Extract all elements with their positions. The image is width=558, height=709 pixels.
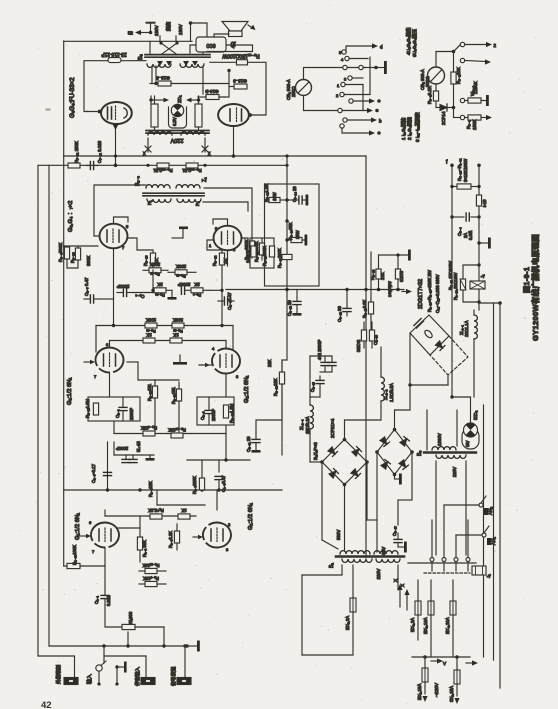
capacitor C5-4: [452, 213, 479, 221]
wire right long bus E: [493, 303, 495, 660]
capacitor C2-8 2009P: [205, 397, 213, 425]
bias T bar between tubes: [172, 227, 188, 239]
svg-text:3X₂,15A: 3X₂,15A: [449, 686, 454, 702]
interstage transformer secondary coils: [147, 199, 171, 202]
interstage transformer core: [143, 193, 204, 196]
wire grid line with resistor R5-16: [84, 61, 146, 112]
choke ZL2-4: [310, 405, 322, 462]
svg-text:R₇₋₁₁1.5K: R₇₋₁₁1.5K: [264, 184, 269, 202]
resistor R6-24 on feedback bus: [186, 163, 198, 168]
svg-text:ℓ-19: ℓ-19: [482, 199, 487, 207]
choke ZL1-1: [474, 310, 477, 397]
svg-text:C₂₋₄: C₂₋₄: [135, 294, 144, 299]
wire speaker enclosure loop: [207, 45, 253, 52]
plug monitor in: [141, 678, 155, 685]
svg-text:6.3V: 6.3V: [172, 117, 177, 126]
switch terminal 3: [344, 76, 363, 82]
arrow mains down right: [454, 698, 459, 704]
wire CB2 loop top: [436, 50, 455, 67]
svg-text:6U₃G₃G₄稳压: 6U₃G₃G₄稳压: [411, 29, 418, 57]
wire taps above output transformer: [150, 36, 203, 55]
wire left stage vertical: [63, 156, 65, 566]
power transformer core: [146, 131, 209, 134]
wire right long bus D: [483, 405, 485, 657]
svg-text:6ℓV: 6ℓV: [465, 440, 470, 447]
domino cap bars: [414, 319, 424, 329]
svg-text:23-116-11P: 23-116-11P: [101, 51, 127, 57]
svg-text:C₅₋₁₇: C₅₋₁₇: [392, 526, 397, 536]
wire tube G6 cathode down: [233, 126, 235, 156]
lamp arrows: [149, 98, 200, 103]
terminal arrow right of speaker: [248, 25, 256, 30]
svg-text:ℓZD₂: ℓZD₂: [473, 410, 478, 420]
node right bus F top: [479, 301, 502, 305]
input jack circle: [96, 661, 106, 686]
fuse BX5 2A: [350, 565, 356, 655]
svg-text:25W: 25W: [295, 230, 300, 239]
relay J1 coil: [470, 281, 485, 289]
wire AN risers: [432, 505, 468, 557]
switch terminal row meter top: [343, 65, 378, 69]
wire frame top horizontal: [64, 40, 192, 42]
grid arrow G1b: [193, 535, 203, 539]
svg-text:0.05\: 0.05\: [468, 230, 473, 240]
resistor R5-15: [237, 60, 248, 65]
bias T bar G2: [173, 355, 187, 365]
wire bridge2 leads: [377, 410, 412, 552]
svg-text:1250K: 1250K: [473, 81, 478, 94]
meter CB1: [296, 80, 312, 96]
fuse BX4 10A: [450, 580, 456, 657]
wire transformer secondary right lead: [203, 202, 248, 211]
domino diode: [435, 341, 445, 351]
svg-text:C₁₋₅0.47: C₁₋₅0.47: [221, 475, 226, 492]
X mark left lead: [143, 138, 151, 157]
wire filament drops: [152, 66, 231, 97]
wire B5 lower loop: [436, 461, 466, 555]
svg-text:R₂₋₂₂151: R₂₋₂₂151: [147, 383, 152, 401]
fuse BX6 15A: [454, 657, 460, 696]
resistor R1-5: [178, 514, 190, 519]
power transformer coils: [148, 132, 172, 135]
wire G1 grid rail: [157, 490, 217, 510]
node tube G6 cathode bus: [232, 154, 236, 158]
svg-text:130V: 130V: [178, 23, 183, 35]
input jack T bar: [117, 662, 127, 673]
capacitor C7-14 20: [287, 196, 306, 204]
svg-text:5L-15: 5L-15: [136, 441, 141, 452]
resistor R1-2 39K: [137, 528, 142, 562]
grid stopper resistors right R3-17: [249, 194, 254, 258]
lamp ZD2 socket: [462, 428, 479, 449]
capacitor C2-3 2000P: [119, 397, 127, 421]
wire G2 grid rail lower: [110, 340, 227, 342]
capacitor pair 2000P mid: [310, 356, 336, 405]
transformer B1 core: [336, 555, 404, 558]
svg-text:ZL₂₋₄: ZL₂₋₄: [299, 419, 304, 430]
svg-text:100K: 100K: [173, 318, 183, 323]
terminal f: [446, 160, 454, 168]
svg-text:BX₂,10A: BX₂,10A: [423, 617, 428, 634]
wire ZD2 top: [450, 395, 470, 423]
filament winding right rect: [195, 104, 202, 127]
small box resistors R3-16: [250, 238, 274, 268]
terminal circles B1 primary row: [430, 558, 470, 562]
switch terminal b: [343, 117, 382, 123]
svg-text:Z₁: Z₁: [202, 177, 208, 182]
svg-text:2DG1T7×32: 2DG1T7×32: [418, 279, 424, 309]
resistors 38Kx2: [361, 322, 374, 348]
wire G4 right lead: [241, 238, 248, 247]
resistor 160K: [251, 246, 256, 257]
wire R5-15 to plate cap riser: [248, 62, 267, 115]
capacitor C1-1 0.022: [101, 590, 109, 605]
svg-text:B₁: B₁: [329, 563, 335, 568]
ground C5-17: [398, 542, 407, 553]
ground C2-11: [252, 446, 261, 453]
node C5-4 ends: [450, 215, 480, 218]
ground C7-14: [306, 195, 309, 206]
svg-text:2K: 2K: [194, 282, 199, 287]
secondary tap arrows: [157, 61, 198, 66]
resistor R2-23 22K: [279, 360, 284, 395]
svg-text:伴音输入: 伴音输入: [134, 667, 141, 686]
svg-text:G₅G₆:FU-33×2: G₅G₆:FU-33×2: [69, 77, 76, 118]
tube G4: [209, 226, 242, 252]
svg-text:100K: 100K: [146, 318, 156, 323]
resistor R7-11: [265, 197, 288, 202]
wire transformer top left lead: [94, 185, 146, 236]
wire box to transformer: [190, 45, 196, 53]
svg-text:R₁+2.2K: R₁+2.2K: [148, 508, 164, 513]
resistor R2-4 15K: [143, 431, 155, 436]
svg-text:C₇₋₁₄ 20: C₇₋₁₄ 20: [292, 186, 297, 202]
wire G2a cathode down: [109, 373, 111, 398]
svg-text:160K: 160K: [246, 253, 251, 263]
svg-text:C₂₋₈: C₂₋₈: [200, 411, 205, 420]
resistor R1-11 10K upper: [139, 568, 166, 573]
wire bottom mains bus: [412, 655, 470, 659]
svg-text:22K: 22K: [267, 359, 272, 367]
svg-text:C₂₋₁₀: C₂₋₁₀: [373, 335, 378, 345]
svg-text:BX₃,2A: BX₃,2A: [410, 618, 415, 632]
svg-text:C₃₋₁₂ 39: C₃₋₁₂ 39: [337, 306, 342, 322]
svg-text:R₅₋₁₀35K: R₅₋₁₀35K: [288, 222, 293, 240]
svg-text:输入: 输入: [86, 674, 93, 684]
svg-text:600: 600: [206, 42, 215, 48]
svg-text:~220V: ~220V: [434, 682, 440, 697]
svg-text:BX₅,2A: BX₅,2A: [345, 616, 350, 630]
switch terminal on meter wire: [338, 108, 379, 113]
wire terminal stubs: [432, 562, 468, 572]
svg-text:1.5Ω/0.5A: 1.5Ω/0.5A: [389, 383, 394, 402]
resistor R5-10 35K 25W: [287, 237, 304, 242]
svg-text:R₆₋₂₅0.51: R₆₋₂₅0.51: [153, 168, 173, 173]
switch terminal 1: [337, 82, 363, 88]
svg-text:1K: 1K: [223, 257, 229, 264]
arrow to speaker top-left: [128, 30, 152, 36]
svg-text:外接喉剌: 外接喉剌: [55, 665, 62, 684]
wire right long bus F: [499, 303, 501, 688]
svg-text:R₁₋₁₈,10Ω10W: R₁₋₁₈,10Ω10W: [453, 273, 458, 300]
resistor 2K left: [154, 288, 172, 293]
resistor R6-25 on feedback bus: [157, 163, 169, 168]
svg-text:R₂₋₁₇6.8K: R₂₋₁₇6.8K: [362, 299, 367, 318]
speaker horn: [222, 22, 248, 37]
capacitor C2-12 20: [293, 297, 301, 309]
svg-text:X: X: [393, 579, 398, 582]
wire C2-12 drop: [296, 290, 298, 298]
svg-text:1360V: 1360V: [437, 433, 442, 446]
svg-text:G₁:1/2 6N₁: G₁:1/2 6N₁: [248, 503, 254, 530]
svg-text:R₂₋₉: R₂₋₉: [193, 293, 202, 298]
capacitor C5-17: [394, 533, 402, 547]
svg-text:R₅₋₁₅150Ω100W: R₅₋₁₅150Ω100W: [222, 53, 259, 59]
svg-text:3 I₅₁~I₇₂基陵校: 3 I₅₁~I₇₂基陵校: [414, 112, 421, 142]
wire G1 plate rail: [105, 510, 196, 528]
resistor R5-16: [108, 58, 121, 63]
resistor 0.675: [395, 255, 400, 290]
resistor R2-22: [152, 380, 157, 405]
margin scan mark: [46, 109, 51, 111]
tube G1b: [203, 522, 231, 552]
wire left feedback vertical A: [38, 166, 75, 678]
grid stopper resistor R3-18: [259, 238, 264, 260]
svg-text:信号发送: 信号发送: [170, 667, 177, 686]
svg-text:R₁₋₇220K: R₁₋₇220K: [192, 476, 197, 494]
domino transistor oval: [423, 329, 433, 339]
switch contact CB2 lower: [460, 58, 491, 64]
output transformer B3 secondary coils: [147, 64, 171, 67]
plug speaker ext: [64, 678, 78, 685]
wire bias rail G2: [127, 362, 212, 380]
pot W6-4 1250K: [460, 95, 489, 106]
svg-text:C₂₋₁₂ 20: C₂₋₁₂ 20: [287, 300, 292, 316]
arrow X second: [400, 584, 410, 610]
ground bridge2: [395, 474, 402, 485]
cathode arrow G5: [113, 125, 119, 131]
relay branch loop: [463, 263, 481, 303]
svg-text:130V: 130V: [154, 24, 159, 36]
bridge rectifier 2CP21x4: [375, 428, 414, 477]
svg-text:G13₋9: G13₋9: [233, 79, 247, 84]
plug signal send: [177, 678, 191, 685]
svg-text:2CP14: 2CP14: [441, 111, 446, 125]
screen resistors 200K row left: [143, 268, 168, 273]
ground right column: [477, 238, 491, 249]
cathode resistor R3-15 1K: [137, 247, 156, 270]
svg-text:2K: 2K: [157, 282, 162, 287]
dashed tap line: [424, 572, 470, 574]
svg-text:AN₂: AN₂: [488, 507, 493, 515]
svg-text:10W: 10W: [272, 192, 277, 201]
resistor R2-13c 1.8M: [223, 405, 228, 418]
svg-text:250Ω: 250Ω: [291, 86, 296, 97]
svg-text:R₇₋₃₁ 150K: R₇₋₃₁ 150K: [74, 141, 79, 163]
svg-text:1 I₁,G₁调流: 1 I₁,G₁调流: [400, 117, 407, 140]
resistor R5-8: [282, 254, 292, 259]
svg-text:1⁄9(ℓ⁄8)W: 1⁄9(ℓ⁄8)W: [387, 281, 392, 297]
potentiometer W1 680: [122, 624, 164, 629]
svg-text:C₁₄~C₁₅=0.033 630V: C₁₄~C₁₅=0.033 630V: [435, 274, 440, 313]
svg-text:52: 52: [128, 31, 134, 36]
node bottom bus: [102, 644, 186, 647]
terminal bar top: [147, 23, 155, 33]
svg-text:B₂Z₂P×3: B₂Z₂P×3: [313, 442, 318, 460]
switch bank terminal 5: [339, 46, 374, 55]
svg-text:B₅: B₅: [417, 451, 423, 456]
tube G1a: [89, 520, 119, 554]
svg-text:42: 42: [41, 700, 52, 709]
svg-text:R₁₋₃2.2K: R₁₋₃2.2K: [168, 531, 173, 548]
arrow mains down left: [422, 696, 427, 702]
svg-text:R₁₋₁₆=R₂₋₁₆=220K 2W: R₁₋₁₆=R₂₋₁₆=220K 2W: [427, 270, 432, 312]
wire G3 top pin: [114, 217, 129, 224]
resistor R1-4: [150, 514, 162, 519]
bridge rectifier B2Z2P x3: [320, 438, 369, 487]
svg-text:2CP21×4: 2CP21×4: [330, 418, 335, 438]
svg-text:4U₂G₂G₃输出: 4U₂G₂G₃输出: [405, 27, 412, 55]
tube G2b: [212, 346, 240, 379]
node box inner: [285, 198, 288, 241]
wire mid bus horizontal: [226, 289, 404, 291]
wire mid vertical bus C: [370, 252, 372, 300]
wire G1a cathode to W1: [104, 548, 105, 591]
svg-text:200K: 200K: [150, 262, 160, 267]
fuse BX1 15A: [422, 657, 428, 694]
svg-text:2000P: 2000P: [116, 446, 128, 451]
svg-text:B₃: B₃: [138, 54, 144, 60]
svg-text:G₂:1/2 6N₁: G₂:1/2 6N₁: [244, 376, 250, 403]
resistor R1-6 10K lower: [139, 581, 166, 586]
svg-text:R₃₋₉500K: R₃₋₉500K: [58, 243, 63, 262]
svg-text:15Ω/0.2A: 15Ω/0.2A: [305, 416, 310, 434]
wire G2b cathode down: [225, 374, 227, 398]
svg-text:ZL₂₋₂: ZL₂₋₂: [383, 389, 388, 400]
wire left feedback vertical B: [48, 165, 50, 646]
svg-text:R₂₋₃₀100K: R₂₋₃₀100K: [72, 545, 77, 565]
wire winding rect stubs: [155, 96, 199, 131]
speaker matching box 600 ohm: [196, 37, 226, 52]
wire B1 lower loop: [302, 565, 398, 655]
bias cap cluster C2-9: [104, 442, 155, 490]
svg-text:R₂₋₄15K: R₂₋₄15K: [141, 426, 157, 431]
tube G2a: [94, 342, 124, 379]
wire R2-18 top rail: [379, 254, 409, 256]
capacitor C2-11 20: [252, 433, 260, 446]
grid resistor R3-20 390K: [75, 246, 80, 264]
filament resistor left: [150, 76, 229, 87]
diode 2CP14: [436, 104, 455, 111]
meter CB2: [428, 67, 445, 84]
cathode network box right G2: [197, 397, 234, 425]
screen resistors 200K row right: [168, 270, 196, 275]
arrow on bus: [402, 289, 412, 294]
wire G2 plate rail upper: [96, 325, 233, 327]
svg-text:2000P: 2000P: [178, 282, 191, 287]
resistor R2-18 10K: [376, 255, 381, 290]
grid resistor R3-9 500K: [64, 246, 69, 264]
svg-text:G₃,G₄ ：₇×2: G₃,G₄ ：₇×2: [68, 201, 74, 232]
svg-text:P₁: P₁: [147, 200, 152, 205]
ground C2-12: [293, 309, 302, 316]
svg-text:2009P: 2009P: [211, 409, 216, 421]
wire mid coupling column: [64, 434, 282, 492]
wire CB2 bottom chain: [433, 84, 438, 108]
svg-text:R₃₋₁₃: R₃₋₁₃: [212, 255, 217, 266]
wire tube G5 cathode down: [115, 124, 117, 165]
wire bottom ground bus: [49, 645, 187, 647]
wire mid vertical bus A: [286, 156, 288, 360]
svg-text:X: X: [400, 584, 405, 587]
wire grid resistor top bus: [64, 245, 98, 247]
svg-text:1K: 1K: [146, 333, 151, 338]
grid arrow G2a: [84, 360, 95, 364]
svg-text:W₁680: W₁680: [128, 611, 133, 624]
center ground T: [168, 290, 177, 299]
fuse BX3 2A: [415, 580, 421, 640]
svg-text:R₁₋₆10K: R₁₋₆10K: [143, 576, 159, 581]
speaker arrow down: [231, 42, 236, 47]
svg-text:G₂:1/2 6N₁: G₂:1/2 6N₁: [67, 378, 73, 405]
wire W1 wiper drop: [128, 627, 164, 646]
resistor 380K: [269, 246, 274, 257]
ground bottom T: [185, 641, 200, 652]
switch AN1: [456, 526, 492, 545]
node G2 rails: [112, 289, 224, 328]
wire lower rail G2: [114, 433, 226, 435]
svg-text:G13-B: G13-B: [205, 89, 218, 94]
cathode network box left G2: [88, 397, 140, 421]
svg-text:580V: 580V: [336, 530, 341, 540]
svg-text:R₆₋₂₄0.51: R₆₋₂₄0.51: [182, 168, 202, 173]
switch terminal c row: [349, 98, 381, 103]
chassis bar R2-18: [408, 250, 411, 261]
svg-text:R₂₋₁₅: R₂₋₁₅: [150, 272, 160, 277]
chassis bar right of switch: [376, 61, 387, 74]
svg-text:R₂₋₁₂: R₂₋₁₂: [176, 274, 186, 279]
resistor R5-20 series: [452, 184, 479, 189]
resistor 1K left G2: [143, 338, 155, 343]
wire CB1 top: [304, 68, 366, 80]
svg-text:R₆₋₂10K: R₆₋₂10K: [456, 67, 461, 84]
svg-text:R₂₋₁₈: R₂₋₁₈: [370, 269, 375, 280]
switch terminal 2: [336, 92, 370, 98]
arrow terminal d: [372, 43, 383, 49]
svg-text:R₂₋₂₈15K: R₂₋₂₈15K: [168, 428, 186, 433]
wire C3-12 drop: [346, 290, 348, 305]
filament resistor right: [229, 79, 247, 90]
wire f vertical: [451, 165, 453, 397]
fuse BX2 10A: [428, 580, 434, 657]
svg-text:R₂₋₁₀: R₂₋₁₀: [155, 293, 165, 298]
capacitor C7-11 on feedback bus: [86, 162, 98, 170]
wire domino left down: [408, 333, 448, 410]
wire lamp top: [151, 96, 199, 104]
svg-text:C₂₋₁₁ 20: C₂₋₁₁ 20: [246, 436, 251, 452]
cap C2-6 0.47 right: [218, 297, 234, 305]
svg-text:200K: 200K: [176, 264, 186, 269]
grid arrow G1a: [80, 534, 91, 538]
resistor R2-21b: [176, 382, 181, 407]
svg-text:390K: 390K: [86, 256, 91, 266]
svg-text:J₁: J₁: [480, 274, 485, 278]
switch terminal a: [340, 124, 381, 136]
resistor R2-30 100K: [64, 563, 104, 568]
transformer B1 lower winding: [342, 559, 372, 562]
switch AN2: [444, 496, 489, 515]
transistor block domino solid: [410, 315, 449, 355]
